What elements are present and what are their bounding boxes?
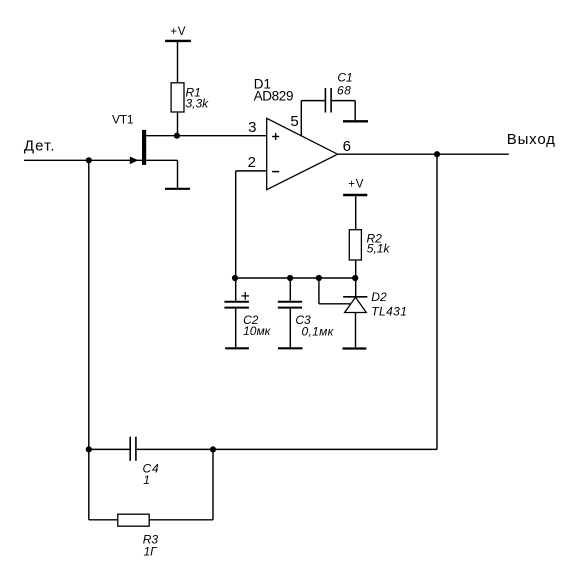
svg-text:+V: +V <box>170 26 186 38</box>
svg-text:AD829: AD829 <box>254 89 294 104</box>
svg-text:C1: C1 <box>337 71 352 85</box>
svg-text:Выход: Выход <box>507 131 556 148</box>
svg-text:TL431: TL431 <box>371 305 407 319</box>
svg-text:1Г: 1Г <box>144 544 159 558</box>
svg-text:1: 1 <box>143 473 150 487</box>
svg-text:3,3k: 3,3k <box>186 96 210 110</box>
svg-text:2: 2 <box>248 154 256 171</box>
svg-text:D2: D2 <box>371 290 387 304</box>
svg-text:6: 6 <box>343 138 351 155</box>
svg-text:+V: +V <box>348 178 364 190</box>
svg-text:68: 68 <box>337 84 351 98</box>
svg-text:5,1k: 5,1k <box>367 242 391 256</box>
svg-text:VT1: VT1 <box>112 112 134 126</box>
svg-text:3: 3 <box>248 119 256 136</box>
svg-text:10мк: 10мк <box>243 324 272 338</box>
svg-text:Дет.: Дет. <box>24 137 56 154</box>
svg-text:0,1мк: 0,1мк <box>302 324 335 338</box>
svg-text:5: 5 <box>290 113 298 130</box>
